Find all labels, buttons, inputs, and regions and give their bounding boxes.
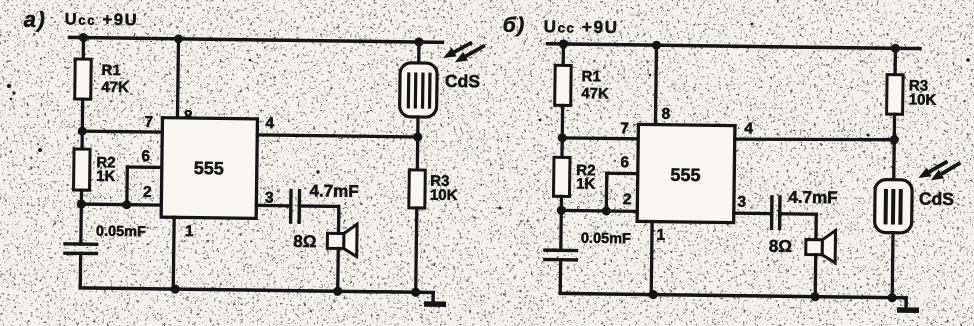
node R2/C1/pin2 (b): [557, 206, 566, 215]
junction rail/pin8 (a): [174, 34, 183, 43]
wire C1 to ground rail (b): [559, 260, 563, 294]
capacitor C2 4.7mF plates (b): [772, 195, 780, 230]
CdS hatch bar 2 (a): [414, 72, 418, 108]
ground symbol (a): [424, 292, 446, 304]
wire C2 to speaker (b): [780, 212, 816, 216]
resistor R3 (b): [887, 75, 904, 115]
wire pin6 branch to box (b): [607, 172, 638, 176]
svg-text:3: 3: [737, 194, 746, 211]
svg-text:1: 1: [185, 223, 194, 240]
CdS hatch bar 1 (b): [884, 189, 888, 224]
light arrow 1 (b): [918, 161, 947, 178]
wire pin1 to ground rail (a): [172, 217, 176, 289]
ground rail (b): [560, 293, 906, 298]
svg-text:10K: 10K: [909, 91, 937, 108]
wire pin4 to node (b): [735, 138, 895, 142]
junction pin2/pin6 branch (a): [122, 200, 131, 209]
wire node to pin2 (a): [81, 204, 161, 205]
svg-text:1K: 1K: [96, 168, 116, 185]
wire R3 to ground rail (a): [416, 208, 417, 292]
photoresistor CdS (a) body: [400, 63, 438, 117]
wire pin6 branch vertical (b): [605, 173, 609, 211]
svg-text:CdS: CdS: [445, 71, 480, 91]
wire pin4 to node (a): [257, 135, 417, 137]
capacitor C1 0.05mF plates (b): [543, 250, 578, 260]
node R1/R2/pin7 (b): [558, 133, 567, 142]
power rail +9V (b): [547, 44, 919, 49]
wire rail to R3 (b): [893, 48, 897, 74]
svg-text:7: 7: [620, 120, 629, 137]
wire rail to pin8 (b): [655, 45, 656, 124]
wire C2 to speaker (a): [299, 204, 338, 208]
wire R1 to node (b): [561, 105, 565, 137]
resistor R2 (b): [553, 157, 570, 196]
svg-text:8Ω: 8Ω: [769, 237, 792, 256]
node R3/CdS/pin4 (b): [890, 135, 899, 144]
CdS hatch bar 3 (b): [898, 189, 902, 224]
wire CdS to node (a): [416, 117, 420, 137]
wire node to pin7 (b): [562, 136, 638, 140]
light arrow 1 (a): [443, 42, 472, 58]
wire node to C1 (a): [79, 204, 83, 244]
svg-text:а): а): [24, 7, 47, 32]
svg-text:2: 2: [143, 184, 152, 201]
svg-text:7: 7: [144, 114, 153, 131]
svg-text:6: 6: [141, 148, 150, 165]
wire node to R3 (a): [416, 137, 420, 170]
light arrow 2 (a): [455, 45, 485, 63]
junction rail/speaker (b): [811, 292, 820, 301]
svg-text:2: 2: [623, 191, 632, 208]
svg-text:47K: 47K: [101, 79, 129, 96]
junction rail/right branch (a): [414, 37, 423, 46]
photoresistor CdS (b) body: [875, 179, 913, 232]
svg-text:6: 6: [620, 154, 629, 171]
wire R2 to node (b): [560, 196, 563, 210]
CdS hatch bar 1 (a): [407, 72, 411, 108]
junction rail/right branch bottom (a): [411, 288, 420, 297]
wire node to pin2 (b): [561, 209, 637, 213]
resistor R3 (a): [409, 170, 425, 208]
svg-text:CdS: CdS: [919, 189, 954, 209]
wire rail to R1 (b): [562, 44, 566, 65]
wire node to R2 (b): [560, 138, 564, 157]
ground rail (a): [80, 288, 433, 293]
svg-text:555: 555: [670, 165, 700, 185]
wire CdS to ground rail (b): [891, 233, 895, 298]
speaker LS (b): [806, 230, 836, 263]
junction rail/R1 (b): [559, 39, 568, 48]
svg-text:4: 4: [265, 115, 274, 132]
svg-text:1K: 1K: [576, 176, 596, 193]
speaker LS (a): [327, 224, 357, 257]
CdS hatch bar 4 (a): [428, 73, 432, 109]
node CdS/R3/pin4 (a): [413, 132, 422, 141]
svg-text:R1: R1: [581, 68, 600, 85]
junction rail/right branch bottom (b): [888, 293, 897, 302]
node R2/C1/pin2 (a): [77, 199, 86, 208]
svg-text:47K: 47K: [581, 85, 609, 102]
junction rail/pin1 (b): [649, 290, 658, 299]
svg-text:555: 555: [194, 158, 224, 178]
junction pin2/pin6 branch (b): [602, 206, 611, 215]
svg-text:б): б): [503, 14, 526, 37]
light arrow 2 (b): [931, 162, 961, 181]
junction rail/R1 (a): [79, 33, 88, 42]
svg-text:1: 1: [656, 227, 665, 244]
wire pin1 to ground rail (b): [650, 222, 654, 295]
junction rail/pin8 (b): [652, 41, 661, 50]
wire rail to CdS (a): [417, 42, 421, 63]
wire R2 to node (a): [80, 190, 83, 204]
power rail +9V (a): [70, 37, 443, 42]
resistor R2 (a): [74, 149, 91, 190]
capacitor C1 0.05mF plates (a): [63, 244, 98, 254]
wire down to speaker (a): [337, 206, 341, 233]
svg-text:R1: R1: [101, 62, 120, 79]
svg-text:4.7mF: 4.7mF: [788, 188, 837, 208]
wire pin3 to C2 (a): [256, 204, 290, 208]
wire C1 to ground rail (a): [79, 253, 83, 287]
resistor R1 (a): [75, 59, 92, 99]
wire speaker to ground rail (a): [336, 248, 340, 291]
wire node to R2 (a): [80, 131, 84, 149]
IC 555 timer U1 (b): [637, 124, 735, 222]
wire down to speaker (b): [814, 214, 818, 239]
wire rail to pin8 (a): [177, 39, 178, 118]
CdS hatch bar 2 (b): [891, 189, 895, 224]
svg-text:4.7mF: 4.7mF: [309, 181, 358, 201]
junction rail/speaker (a): [333, 287, 342, 296]
wire pin3 to C2 (b): [734, 211, 772, 215]
wire node to pin7 (a): [82, 131, 162, 132]
wire R3 to node (b): [893, 114, 897, 139]
wire R1 to node (a): [81, 99, 85, 131]
ground symbol (b): [897, 298, 919, 310]
junction rail/right branch (b): [891, 44, 900, 53]
wire node to C1 (b): [559, 210, 563, 250]
svg-text:Ucc +9U: Ucc +9U: [544, 17, 619, 37]
junction rail/pin1 (a): [171, 284, 180, 293]
svg-text:10K: 10K: [430, 187, 458, 204]
wire rail to R1 (a): [82, 38, 86, 59]
svg-text:0.05mF: 0.05mF: [581, 231, 631, 248]
IC 555 timer U1 (a): [161, 118, 257, 219]
wire pin6 branch to box (a): [127, 165, 161, 169]
scan speckle blobs (decorative): [7, 23, 970, 210]
svg-text:8Ω: 8Ω: [293, 232, 316, 251]
capacitor C2 4.7mF plates (a): [291, 189, 300, 224]
svg-text:Ucc +9U: Ucc +9U: [65, 10, 139, 29]
svg-text:4: 4: [744, 120, 753, 137]
resistor R1 (b): [555, 65, 572, 105]
svg-text:0.05mF: 0.05mF: [96, 224, 146, 241]
wire node to CdS (b): [892, 140, 896, 180]
wire speaker to ground rail (b): [814, 255, 818, 297]
node R1/R2/pin7 (a): [78, 127, 87, 136]
svg-text:8: 8: [661, 106, 670, 123]
CdS hatch bar 3 (a): [421, 73, 425, 109]
wire pin6 branch vertical (a): [125, 167, 129, 205]
